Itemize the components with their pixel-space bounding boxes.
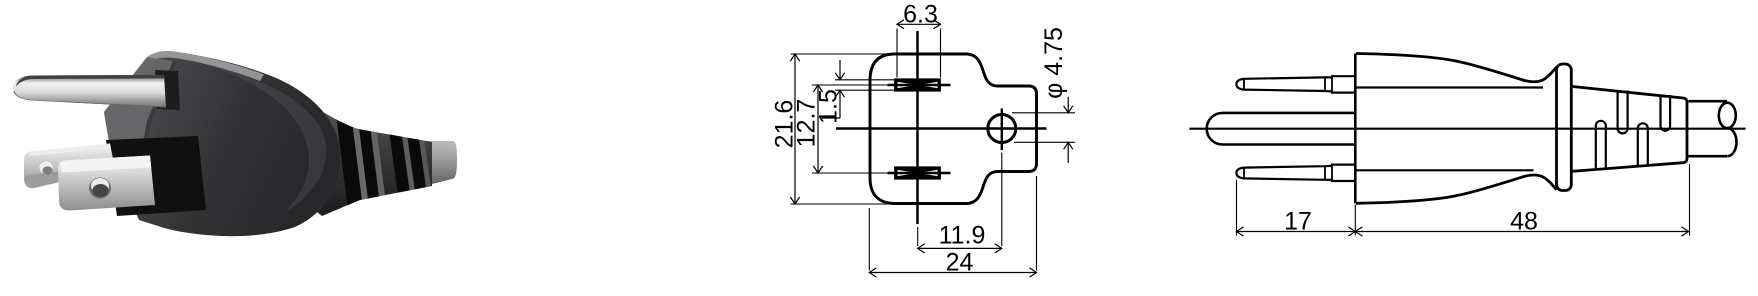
horizontal centerline (836, 127, 1047, 130)
dimension lines with arrows (790, 20, 1072, 277)
collar (1557, 64, 1572, 191)
extension lines (791, 29, 1076, 271)
ext circle center down for 11.9 (1001, 153, 1003, 247)
blade slot upper hatch (898, 82, 938, 88)
dim 6.3 (897, 23, 941, 25)
dim 17 and 48 (1237, 227, 1689, 236)
body bottom profile (1356, 175, 1557, 203)
back blade hole (40, 162, 53, 174)
ground pin lower shade (13, 91, 166, 108)
back blade (24, 144, 115, 189)
cable (420, 141, 457, 187)
ext bottom edge for 21.6 (791, 203, 896, 205)
cable bottom line (1689, 155, 1728, 158)
ext circle top/bottom for dia (1012, 113, 1075, 143)
body internal line top (1356, 86, 1543, 88)
relief slot C (bottom) (1638, 123, 1648, 165)
ext 24 right (1036, 176, 1038, 271)
dim dia 4.75 outside arrows (1067, 97, 1069, 163)
svg-text:6.3: 6.3 (903, 1, 938, 29)
dim 11.9 (918, 247, 1002, 249)
ext relief end (1689, 164, 1691, 236)
labels (771, 1, 1069, 277)
body side sheen (200, 62, 326, 212)
centerline (1189, 128, 1745, 130)
svg-text:1.5: 1.5 (815, 89, 843, 124)
ground pin (13, 75, 166, 108)
face crease (140, 61, 177, 162)
ext 24 left (868, 208, 870, 271)
ext blade edges for 1.5 (835, 80, 895, 90)
svg-text:48: 48 (1510, 207, 1538, 235)
blade slot lower (896, 168, 940, 178)
front blade top bright (60, 156, 151, 173)
svg-text:φ 4.75: φ 4.75 (1040, 27, 1068, 99)
top blade side (1236, 76, 1355, 92)
dim 12.7 (817, 85, 819, 173)
blade lower centerline (888, 172, 951, 174)
ext blade centers for 12.7 (812, 85, 888, 173)
ground hole circle (988, 115, 1016, 143)
dim 1.5 outside arrows (822, 60, 840, 118)
body internal line bottom (1356, 169, 1533, 171)
dim 21.6 (794, 54, 796, 204)
strain relief taper (1571, 86, 1687, 171)
face plate black (106, 136, 206, 216)
circle vertical centerline (1001, 109, 1003, 151)
strain relief (300, 103, 432, 216)
ground pin side (1207, 113, 1355, 145)
plug face outline (870, 54, 1037, 204)
plug body (104, 51, 340, 236)
ext blade tip (1236, 180, 1238, 236)
svg-text:17: 17 (1284, 207, 1312, 235)
relief bands (336, 112, 432, 218)
bottom blade side (1236, 165, 1355, 181)
relief slot B (top) (1618, 91, 1628, 134)
front blade (58, 156, 155, 211)
cable end upper ellipse (1719, 103, 1736, 128)
body top profile (1356, 54, 1557, 82)
cable top line (1689, 100, 1728, 103)
relief slot A (bottom) (1596, 121, 1606, 169)
relief slot D (top) (1661, 95, 1671, 131)
svg-text:24: 24 (946, 249, 974, 277)
body face line (1354, 54, 1357, 204)
svg-text:11.9: 11.9 (939, 222, 986, 250)
back blade dark edge (30, 144, 111, 157)
front blade hole (89, 178, 111, 199)
ext face (1354, 205, 1356, 236)
cable end lower cap (1727, 128, 1736, 156)
dim 24 (869, 272, 1036, 274)
ground pin shadow base (155, 70, 180, 110)
ext top edge for 21.6 (791, 53, 894, 55)
ground pin top dark edge (16, 75, 164, 87)
vertical centerline (916, 31, 919, 224)
back blade lower shade (25, 164, 115, 188)
blade slot lower hatch (898, 170, 938, 176)
extension lines (1237, 164, 1690, 236)
body top highlight (147, 51, 264, 81)
ext 11.9 left (917, 227, 919, 246)
blade upper centerline (888, 84, 951, 86)
body left face (104, 57, 173, 161)
blade slot upper (896, 80, 940, 90)
ext 6.3 verticals (897, 29, 941, 78)
